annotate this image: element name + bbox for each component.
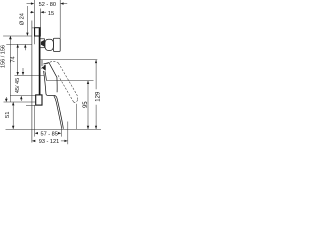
bottom housing box [36,95,42,105]
plan view: grip round section [45,39,53,50]
side view: lever pivot wedge [42,65,46,71]
dimension 57-85 arrows [35,132,62,134]
box lower extension line to dim rows [34,106,36,137]
svg-text:57 - 85: 57 - 85 [40,131,57,137]
dashed raised lever top arc [41,61,58,68]
plan view: neck side line [44,39,46,48]
extension line lever tip right (x67.8) [67,122,69,145]
plan view: lever taper wedge [41,40,45,47]
plate front face extension line [39,9,41,28]
top housing box [35,28,41,36]
dimension 156/156 line [5,36,12,102]
plan view: handle neck bottom line [40,47,44,49]
bottom reference line y129.2 [6,128,102,130]
extension line plate bottom (y102) [4,101,36,103]
extension line pivot (y74.9) [15,74,45,76]
side view: lever neck and blade front edge [44,71,64,129]
dimension 95 line [87,81,89,130]
wall line [31,21,33,143]
dimension 74 line [17,44,19,75]
dimension 129 line [95,60,97,130]
carrier extension line (top dims left reference) [33,0,35,44]
svg-text:51: 51 [5,112,11,118]
escutcheon plate edge (thick) [39,28,41,95]
dashed raised lever tip arc [74,100,78,103]
dimension 15 line [30,11,46,13]
svg-text:52 - 80: 52 - 80 [39,2,56,8]
dimension 52-80 line [27,2,68,4]
side view: sleeve top line / 129 extension [40,59,97,61]
extension line box bottom (y105.5) [26,104,35,106]
svg-text:74: 74 [11,56,17,62]
extension line y95.8 [10,95,36,97]
extension line 57-85 right (below ref line) [60,129,62,136]
extension line plate top (y36) [3,35,32,37]
dashed raised lever upper edge [58,63,77,100]
dimension Ø24 line [24,6,29,50]
dashed raised lever lower edge [58,75,74,103]
extension line knob bottom (y44.2) [6,43,32,45]
dimension 93-121 arrows and line [32,140,68,142]
side view: sleeve edge [41,60,43,66]
side view: neck inner line [45,71,47,80]
svg-text:15: 15 [48,11,54,17]
svg-text:129: 129 [95,91,101,102]
extension line from dashed lever tip [76,104,78,129]
dimension 51 line [12,102,14,129]
svg-text:156 / 156: 156 / 156 [0,45,6,68]
plan view: handle neck top line [40,38,44,40]
dimension 45/45 upper arrow [22,68,24,75]
svg-text:93 - 121: 93 - 121 [39,139,60,145]
knob end extension line [59,0,61,38]
plan view: grip end cap [53,38,60,51]
side view: lever head top edge [43,63,57,93]
svg-text:Ø 24: Ø 24 [20,13,26,25]
side view: lever feature line / 95 extension [46,80,93,82]
svg-text:95: 95 [83,101,89,108]
top housing box connector line [32,27,35,29]
svg-text:45/ 45: 45/ 45 [15,78,21,93]
dimension 45/45 lower arrow [20,96,22,101]
side view: blade left edge [54,96,62,129]
